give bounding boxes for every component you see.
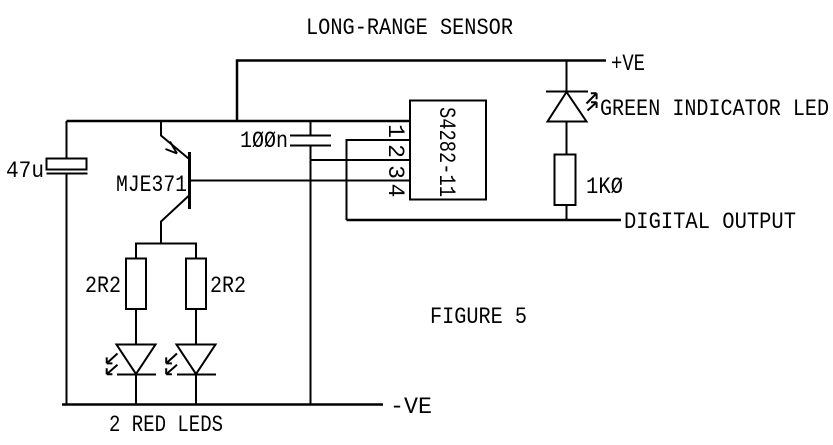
svg-text:FIGURE 5: FIGURE 5 [430,304,527,330]
svg-text:2 RED LEDS: 2 RED LEDS [109,412,223,438]
svg-text:S4282-11: S4282-11 [433,107,459,197]
svg-text:2R2: 2R2 [85,273,121,299]
svg-text:2: 2 [382,144,408,158]
svg-text:+VE: +VE [611,51,645,77]
svg-text:1: 1 [382,124,408,138]
svg-text:1ØØn: 1ØØn [240,128,288,154]
svg-text:GREEN INDICATOR LED: GREEN INDICATOR LED [600,96,829,122]
svg-text:MJE371: MJE371 [116,172,187,198]
svg-text:LONG-RANGE SENSOR: LONG-RANGE SENSOR [306,15,513,41]
svg-text:-VE: -VE [390,394,432,420]
svg-text:4: 4 [382,184,408,198]
svg-text:1KØ: 1KØ [586,174,623,200]
svg-text:2R2: 2R2 [210,273,246,299]
svg-text:3: 3 [382,165,408,179]
svg-text:47u: 47u [6,158,44,184]
svg-text:DIGITAL OUTPUT: DIGITAL OUTPUT [624,209,796,235]
